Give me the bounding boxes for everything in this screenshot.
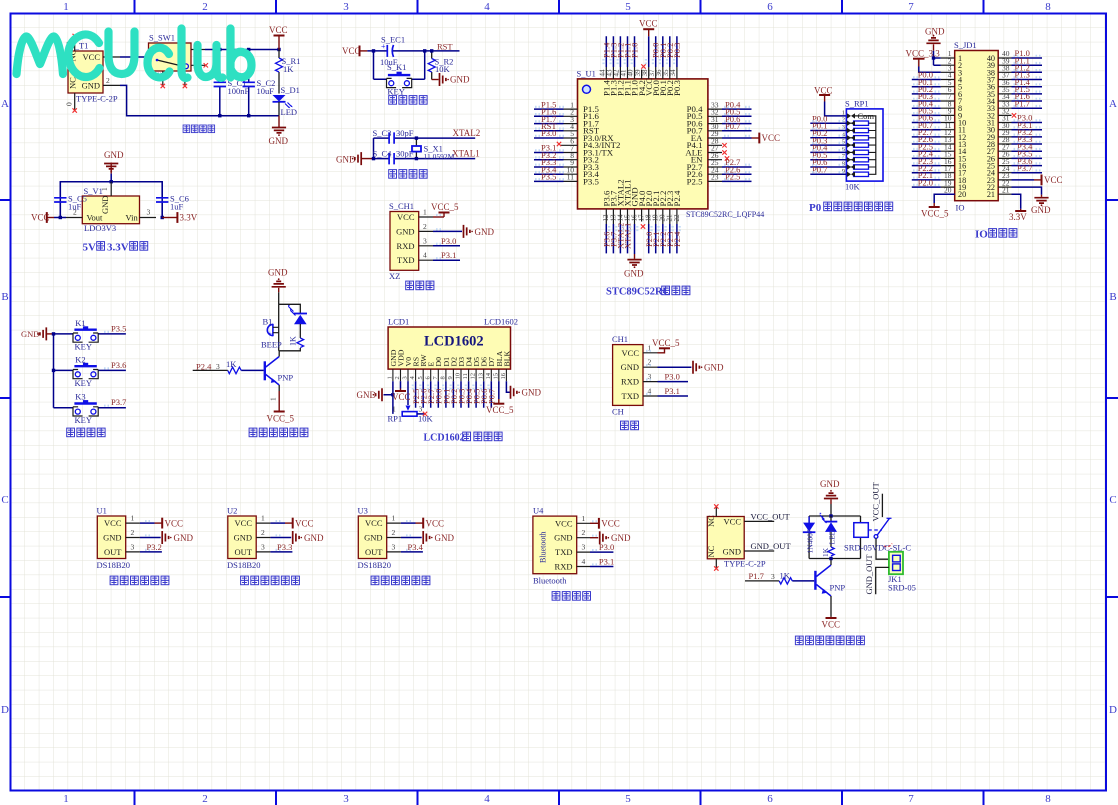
svg-text:CH: CH	[612, 407, 624, 417]
svg-text:1: 1	[392, 405, 396, 414]
svg-text:10K: 10K	[435, 64, 451, 74]
svg-text:30pF: 30pF	[396, 128, 414, 138]
svg-text:20: 20	[958, 190, 966, 199]
svg-text:1K: 1K	[780, 570, 791, 580]
svg-text:P3.1: P3.1	[441, 250, 456, 260]
svg-text:1: 1	[63, 1, 69, 13]
svg-text:1: 1	[387, 376, 394, 379]
svg-text:VCC: VCC	[622, 348, 640, 358]
svg-text:34: 34	[669, 69, 677, 77]
svg-text:LCD1602: LCD1602	[424, 334, 484, 350]
svg-text:1: 1	[582, 514, 586, 523]
svg-text:GND: GND	[268, 268, 288, 278]
svg-text:3.3V: 3.3V	[1009, 212, 1027, 222]
svg-text:11.0592M: 11.0592M	[424, 152, 455, 161]
svg-text:22: 22	[673, 214, 681, 222]
svg-text:K2: K2	[75, 354, 85, 364]
svg-text:5: 5	[625, 1, 631, 13]
svg-text:RXD: RXD	[621, 377, 639, 387]
svg-text:P3.6: P3.6	[111, 360, 126, 370]
svg-text:P3.0: P3.0	[541, 128, 556, 138]
svg-text:GND: GND	[450, 75, 470, 85]
svg-text:VCC_OUT: VCC_OUT	[751, 511, 791, 521]
svg-text:P2.4: P2.4	[196, 361, 212, 371]
svg-text:VCC_5: VCC_5	[652, 338, 680, 348]
svg-text:P3.7: P3.7	[1017, 163, 1032, 173]
svg-text:12: 12	[470, 373, 477, 380]
svg-text:VCC: VCC	[724, 516, 742, 526]
svg-text:RXD: RXD	[397, 241, 415, 251]
svg-text:P2.0: P2.0	[918, 177, 933, 187]
svg-text:TXD: TXD	[397, 255, 414, 265]
svg-text:B1: B1	[263, 317, 273, 327]
svg-text:3.3V: 3.3V	[180, 213, 198, 223]
svg-text:3.3V: 3.3V	[107, 242, 129, 254]
svg-text:8: 8	[1045, 793, 1051, 805]
svg-text:1K: 1K	[821, 547, 830, 557]
svg-text:21: 21	[987, 190, 995, 199]
svg-text:P3.5: P3.5	[541, 172, 556, 182]
svg-text:1: 1	[63, 793, 69, 805]
svg-text:SRD-05VDC-SL-C: SRD-05VDC-SL-C	[844, 543, 911, 553]
svg-text:30pF: 30pF	[396, 148, 414, 158]
svg-text:P3.7: P3.7	[111, 397, 126, 407]
svg-text:20: 20	[944, 185, 952, 194]
svg-text:S_K1: S_K1	[387, 62, 406, 72]
svg-text:4: 4	[423, 251, 427, 260]
svg-text:K1: K1	[75, 318, 85, 328]
svg-text:GND: GND	[621, 362, 639, 372]
svg-text:VCC: VCC	[639, 19, 658, 29]
svg-text:GND: GND	[522, 388, 542, 398]
svg-text:IO: IO	[956, 203, 965, 213]
svg-text:TXD: TXD	[622, 391, 639, 401]
svg-text:S_U1: S_U1	[577, 69, 596, 79]
svg-text:P3.5: P3.5	[111, 323, 126, 333]
svg-text:VCC: VCC	[397, 212, 415, 222]
svg-text:C: C	[1, 494, 8, 506]
svg-text:4: 4	[582, 557, 586, 566]
svg-text:10K: 10K	[418, 414, 434, 424]
svg-text:21: 21	[1002, 185, 1010, 194]
svg-text:DS18B20: DS18B20	[358, 560, 392, 570]
svg-text:VCC_5: VCC_5	[486, 405, 514, 415]
svg-text:13: 13	[477, 373, 484, 380]
svg-text:1uF: 1uF	[170, 202, 184, 212]
svg-text:U2: U2	[227, 506, 237, 516]
svg-text:GND: GND	[269, 136, 289, 146]
svg-text:A: A	[1, 98, 9, 110]
svg-text:RXD: RXD	[555, 562, 573, 572]
svg-text:2: 2	[131, 528, 135, 537]
svg-text:1: 1	[269, 397, 278, 401]
svg-text:P0: P0	[809, 202, 822, 214]
svg-text:8: 8	[440, 376, 447, 379]
svg-text:GND: GND	[820, 479, 840, 489]
svg-text:1uF: 1uF	[68, 202, 82, 212]
svg-text:P0.3: P0.3	[672, 43, 682, 58]
svg-text:3: 3	[216, 362, 220, 371]
svg-text:14: 14	[485, 372, 492, 379]
svg-text:RST: RST	[437, 42, 453, 52]
svg-text:CH1: CH1	[612, 334, 628, 344]
svg-text:P3.0: P3.0	[599, 542, 614, 552]
svg-text:0: 0	[65, 102, 74, 106]
svg-text:P3.5: P3.5	[583, 176, 599, 186]
svg-text:15: 15	[492, 373, 499, 380]
svg-text:VCC_5: VCC_5	[431, 202, 459, 212]
svg-text:K3: K3	[75, 392, 85, 402]
svg-text:LCD1602: LCD1602	[484, 317, 518, 327]
svg-text:P0.3: P0.3	[672, 80, 682, 96]
svg-text:BLK: BLK	[502, 351, 511, 367]
svg-text:1N4007: 1N4007	[805, 529, 814, 553]
svg-text:PNP: PNP	[830, 583, 846, 593]
svg-text:OUT: OUT	[104, 547, 122, 557]
svg-text:B: B	[1109, 291, 1116, 303]
svg-text:P0.7: P0.7	[812, 165, 827, 175]
svg-text:11: 11	[462, 373, 469, 379]
svg-text:3: 3	[343, 793, 349, 805]
svg-text:GND: GND	[925, 27, 945, 37]
svg-text:VCC: VCC	[392, 392, 411, 402]
svg-text:VCC: VCC	[1044, 175, 1063, 185]
svg-text:P3.0: P3.0	[441, 236, 456, 246]
svg-text:P2.5: P2.5	[687, 176, 703, 186]
svg-text:S_RP1: S_RP1	[845, 99, 869, 109]
svg-text:1: 1	[842, 109, 845, 116]
svg-text:KEY: KEY	[75, 341, 92, 351]
svg-text:3: 3	[343, 1, 349, 13]
svg-text:1: 1	[131, 514, 135, 523]
svg-text:RP1: RP1	[388, 414, 403, 424]
svg-text:P1.0: P1.0	[630, 43, 640, 58]
svg-text:P0.7: P0.7	[725, 121, 740, 131]
svg-text:XZ: XZ	[389, 271, 400, 281]
svg-text:VCC: VCC	[555, 518, 573, 528]
svg-text:TYPE-C-2P: TYPE-C-2P	[724, 559, 766, 569]
svg-text:2: 2	[106, 76, 110, 85]
svg-text:VCC_3.3: VCC_3.3	[906, 49, 941, 59]
svg-text:3: 3	[423, 236, 427, 245]
svg-text:A: A	[1109, 98, 1117, 110]
svg-text:23: 23	[711, 173, 719, 182]
svg-text:XTAL2: XTAL2	[453, 128, 481, 138]
svg-text:10K: 10K	[845, 182, 861, 192]
svg-text:STC89C52RC_LQFP44: STC89C52RC_LQFP44	[686, 210, 764, 219]
svg-text:GND: GND	[174, 533, 194, 543]
svg-text:2: 2	[423, 222, 427, 231]
svg-text:VCC: VCC	[165, 518, 184, 528]
svg-text:2: 2	[202, 1, 208, 13]
svg-text:LDO3V3: LDO3V3	[84, 223, 116, 233]
svg-text:6: 6	[767, 793, 773, 805]
svg-text:P2.4: P2.4	[672, 231, 682, 247]
svg-text:TYPE-C-2P: TYPE-C-2P	[76, 94, 118, 104]
svg-text:VCC_5: VCC_5	[921, 209, 949, 219]
svg-text:VCC: VCC	[83, 52, 101, 62]
svg-text:Vin: Vin	[126, 213, 139, 223]
svg-text:VCC_5: VCC_5	[267, 414, 295, 424]
svg-text:GND: GND	[624, 269, 644, 279]
svg-text:VCC: VCC	[762, 133, 781, 143]
svg-text:GND_OUT: GND_OUT	[864, 554, 874, 595]
svg-text:NC: NC	[706, 515, 716, 527]
svg-text:3: 3	[402, 376, 409, 379]
svg-text:GND: GND	[103, 533, 121, 543]
svg-text:P2.5: P2.5	[725, 172, 740, 182]
svg-text:GND: GND	[21, 329, 39, 339]
svg-text:D: D	[1109, 704, 1117, 716]
svg-text:P3.1: P3.1	[599, 557, 614, 567]
svg-text:1K: 1K	[289, 336, 298, 346]
svg-text:7: 7	[908, 793, 914, 805]
svg-text:GND: GND	[336, 154, 356, 164]
svg-text:3: 3	[771, 572, 775, 581]
svg-text:3: 3	[582, 543, 586, 552]
svg-text:GND: GND	[475, 227, 495, 237]
svg-text:U1: U1	[97, 506, 107, 516]
svg-text:10uF: 10uF	[257, 86, 275, 96]
svg-text:P1.7: P1.7	[749, 571, 764, 581]
svg-text:S_C4: S_C4	[373, 148, 393, 158]
svg-text:VCC: VCC	[269, 25, 288, 35]
svg-text:P0.7: P0.7	[487, 389, 497, 404]
svg-text:GND: GND	[82, 81, 100, 91]
svg-text:11: 11	[567, 173, 574, 182]
svg-text:VCC: VCC	[601, 519, 620, 529]
svg-text:7: 7	[908, 1, 914, 13]
svg-text:S_JD1: S_JD1	[954, 40, 977, 50]
svg-text:KEY: KEY	[75, 415, 92, 425]
svg-text:1K: 1K	[226, 359, 237, 369]
svg-text:3: 3	[131, 542, 135, 551]
svg-text:LCD1: LCD1	[388, 317, 409, 327]
svg-text:2: 2	[394, 376, 401, 379]
svg-text:GND: GND	[704, 363, 724, 373]
svg-text:5: 5	[417, 376, 424, 379]
svg-text:S_CH1: S_CH1	[389, 201, 414, 211]
svg-text:LED: LED	[828, 529, 837, 544]
svg-text:3: 3	[147, 208, 151, 217]
svg-text:3: 3	[419, 405, 423, 414]
svg-text:NC: NC	[706, 545, 716, 557]
svg-text:Bluetooth: Bluetooth	[539, 531, 548, 563]
svg-text:NC: NC	[68, 77, 78, 89]
svg-text:+: +	[268, 330, 272, 338]
svg-text:U3: U3	[358, 506, 368, 516]
svg-text:Bluetooth: Bluetooth	[533, 576, 567, 586]
svg-text:GND: GND	[396, 226, 414, 236]
svg-text:P2.4: P2.4	[672, 190, 682, 206]
svg-text:1: 1	[100, 187, 109, 191]
svg-text:VCC: VCC	[342, 46, 361, 56]
svg-text:U4: U4	[533, 506, 544, 516]
svg-text:D: D	[1, 704, 9, 716]
svg-text:GND: GND	[100, 196, 110, 214]
svg-text:S_SW1: S_SW1	[149, 33, 175, 43]
svg-text:STC89C52RC: STC89C52RC	[606, 287, 670, 298]
svg-text:1K: 1K	[283, 64, 294, 74]
svg-text:LED: LED	[281, 107, 298, 117]
svg-text:6: 6	[767, 1, 773, 13]
svg-text:VCC: VCC	[104, 518, 122, 528]
svg-text:LCD1602: LCD1602	[424, 433, 465, 444]
svg-text:C: C	[1109, 494, 1116, 506]
svg-text:8: 8	[1045, 1, 1051, 13]
svg-text:100nF: 100nF	[228, 86, 250, 96]
svg-text:P3.1: P3.1	[665, 386, 680, 396]
svg-text:SRD-05: SRD-05	[888, 583, 916, 593]
svg-text:XTAL1: XTAL1	[452, 149, 480, 159]
svg-text:10: 10	[455, 373, 462, 380]
svg-text:GND: GND	[357, 390, 377, 400]
svg-text:KEY: KEY	[75, 378, 92, 388]
svg-text:2: 2	[202, 793, 208, 805]
svg-text:P3.0: P3.0	[665, 372, 680, 382]
svg-text:GND: GND	[1031, 205, 1051, 215]
svg-text:5V: 5V	[83, 242, 97, 254]
svg-text:DS18B20: DS18B20	[97, 560, 131, 570]
svg-text:KEY: KEY	[387, 87, 404, 97]
svg-text:S_C3: S_C3	[373, 128, 392, 138]
svg-text:VCC_OUT: VCC_OUT	[871, 481, 881, 521]
svg-text:GND_OUT: GND_OUT	[751, 541, 792, 551]
svg-text:1: 1	[423, 208, 427, 217]
svg-text:P1.7: P1.7	[1015, 98, 1030, 108]
svg-text:4: 4	[484, 1, 490, 13]
svg-text:GND: GND	[723, 546, 741, 556]
svg-text:GND: GND	[554, 533, 572, 543]
svg-text:DS18B20: DS18B20	[227, 560, 261, 570]
svg-text:TXD: TXD	[555, 547, 572, 557]
svg-text:PNP: PNP	[278, 373, 294, 383]
svg-text:GND: GND	[104, 150, 124, 160]
svg-text:BEEP: BEEP	[261, 340, 282, 350]
svg-text:2: 2	[582, 528, 586, 537]
svg-text:5: 5	[625, 793, 631, 805]
svg-text:S_D1: S_D1	[281, 85, 300, 95]
svg-text:B: B	[1, 291, 8, 303]
svg-text:4: 4	[484, 793, 490, 805]
svg-text:9: 9	[447, 376, 454, 379]
svg-text:IO: IO	[975, 229, 988, 241]
svg-text:16: 16	[500, 372, 507, 379]
svg-text:VCC: VCC	[822, 620, 841, 630]
svg-text:+: +	[381, 42, 386, 51]
